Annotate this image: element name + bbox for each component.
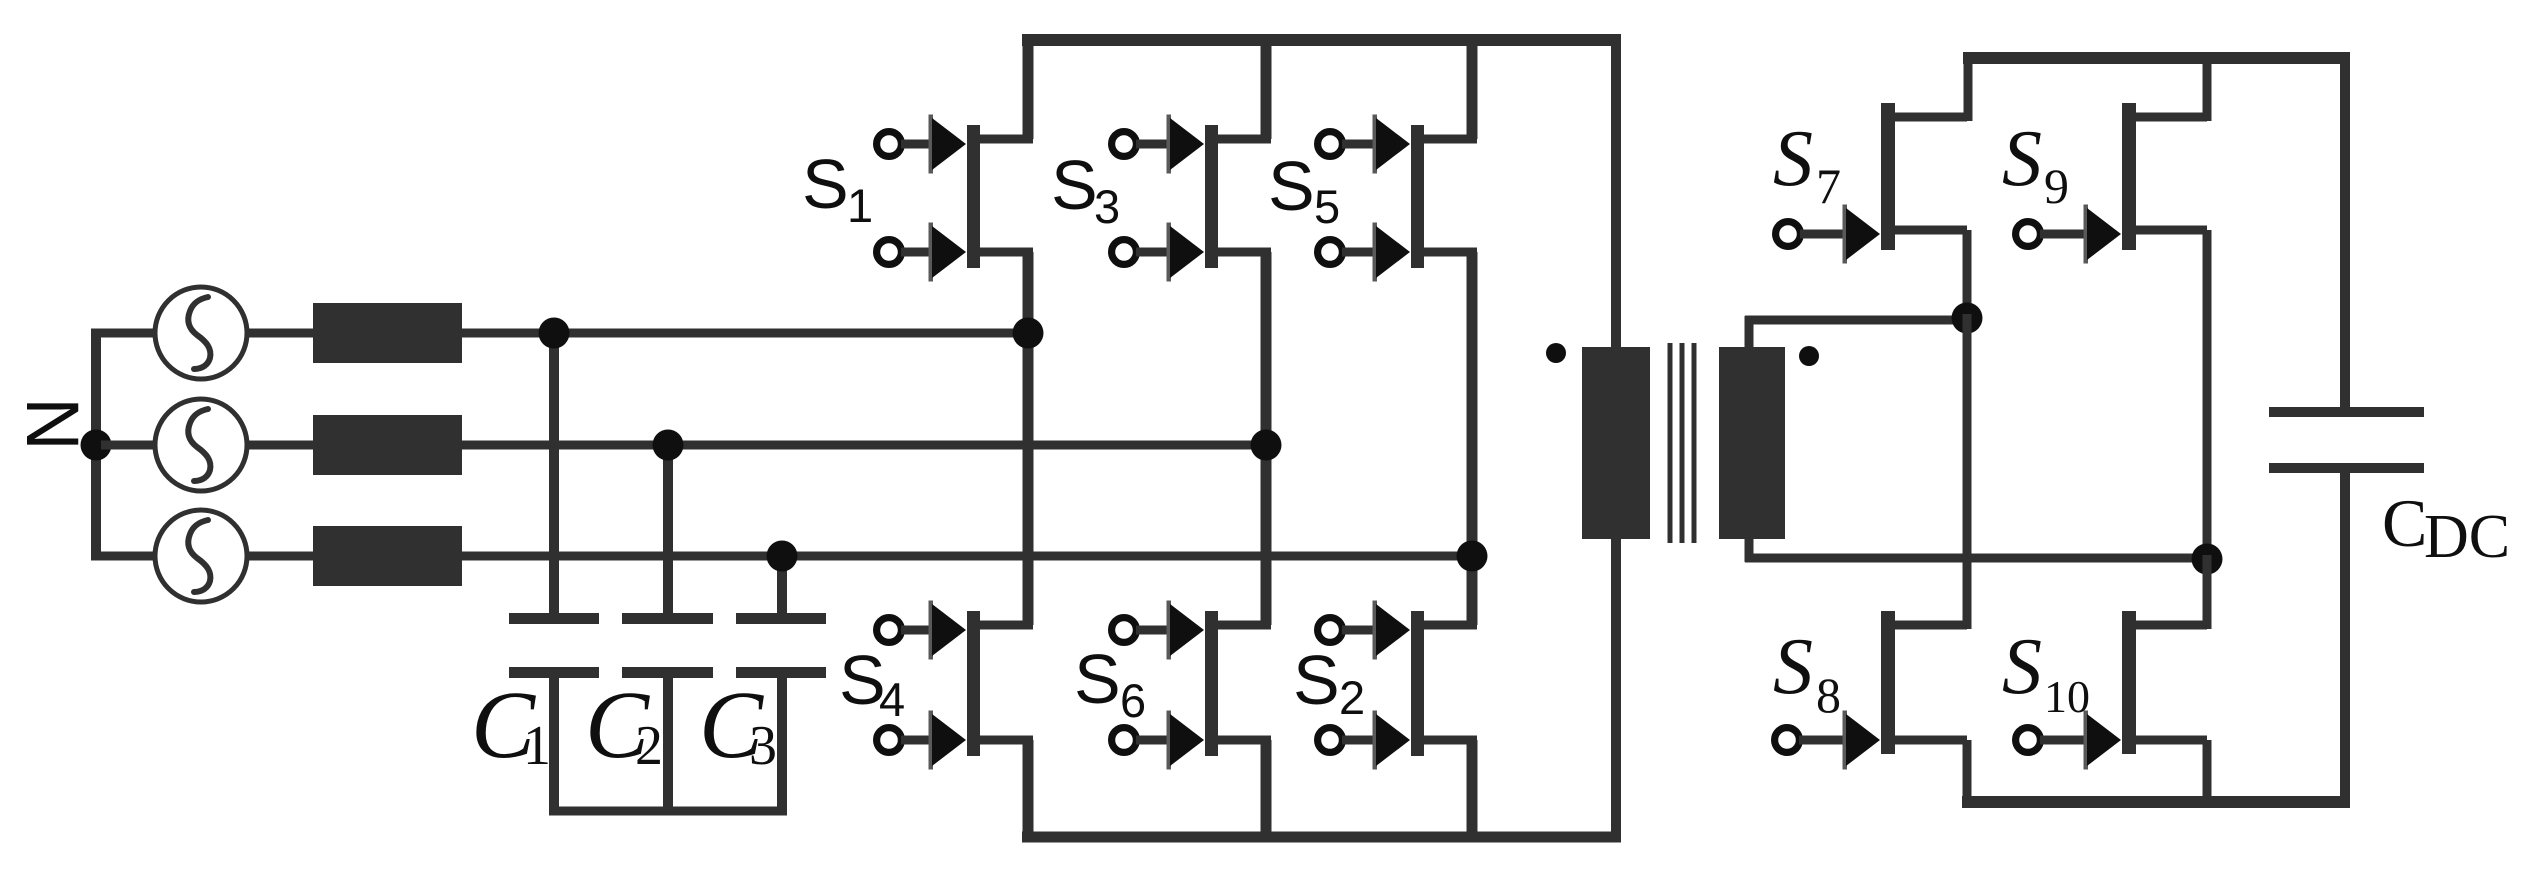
switch S5 diode 1 <box>1373 115 1411 174</box>
switch S6 lower tap <box>1216 736 1271 745</box>
svg-text:3: 3 <box>749 715 777 777</box>
switch S6 label <box>1074 640 1146 727</box>
wire column A lower segment <box>1023 740 1034 840</box>
wire S7 source column <box>1963 230 1972 322</box>
svg-text:S: S <box>2002 115 2042 203</box>
switch S2 channel bar <box>1411 611 1424 756</box>
capacitor C2 bottom plate <box>622 667 713 678</box>
node phase C / C3 junction <box>767 541 798 572</box>
switch S10 gate terminal <box>2016 728 2041 753</box>
node phase A / C1 junction <box>539 318 570 349</box>
node N junction <box>81 430 112 461</box>
wire phase C <box>462 552 1477 561</box>
svg-text:7: 7 <box>1816 158 1841 214</box>
wire S10 drain column <box>2203 555 2212 629</box>
node secondary bottom junction <box>2192 544 2223 575</box>
svg-text:2: 2 <box>1339 671 1365 724</box>
switch S1 gate terminal 2 <box>877 240 902 265</box>
switch S7 gate terminal <box>1776 222 1801 247</box>
svg-text:C: C <box>2382 485 2427 561</box>
capacitor C1 label <box>471 671 551 778</box>
switch S8 channel bar <box>1881 611 1895 754</box>
svg-text:8: 8 <box>1816 667 1841 723</box>
wire capacitor bank bottom bus <box>549 807 787 816</box>
switch S8 label <box>1773 623 1841 723</box>
svg-text:5: 5 <box>1314 180 1340 233</box>
wire secondary top <box>1745 316 1967 347</box>
capacitor C1 top plate <box>509 613 599 624</box>
node phase B / C2 junction <box>653 430 684 461</box>
switch S2 gate terminal 1 <box>1318 618 1343 643</box>
switch S3 lower tap <box>1216 248 1271 257</box>
capacitor CDC top plate <box>2269 407 2424 417</box>
switch S5 channel bar <box>1411 125 1424 268</box>
wire S10 source column <box>2203 740 2212 806</box>
switch S7 channel bar <box>1881 103 1895 250</box>
svg-text:S: S <box>802 145 849 223</box>
switch S6 diode 1 <box>1167 601 1205 660</box>
switch S10 arrow <box>2084 711 2122 770</box>
svg-text:S: S <box>1293 641 1340 719</box>
switch S3 diode 2 <box>1167 223 1205 282</box>
switch S6 diode 2 <box>1167 711 1205 770</box>
switch S1 diode 2 <box>929 223 967 282</box>
switch S1 gate wire 2 <box>901 248 937 257</box>
switch S10 gate wire <box>2040 736 2092 745</box>
switch S8 source tap <box>1893 736 1967 745</box>
switch S9 label <box>2002 115 2069 214</box>
wire C3 top stem <box>777 556 787 616</box>
switch S8 drain tap <box>1893 621 1967 630</box>
transformer core line 2 <box>1680 343 1685 543</box>
wire N to source Vc <box>91 552 156 561</box>
capacitor C3 label <box>699 671 777 778</box>
switch S2 gate terminal 2 <box>1318 728 1343 753</box>
inductor Lc <box>313 526 462 586</box>
capacitor C1 bottom plate <box>509 667 599 678</box>
switch S5 gate terminal 2 <box>1318 240 1343 265</box>
wire column B lower segment <box>1261 740 1272 840</box>
switch S4 gate wire 1 <box>901 626 937 635</box>
switch S1 upper tap <box>978 135 1033 144</box>
wire bridge top bus <box>1963 52 2350 64</box>
ac source Vb circle <box>155 399 247 491</box>
svg-text:10: 10 <box>2044 671 2090 722</box>
inductor Lb <box>313 415 462 475</box>
wire S8 source column <box>1963 740 1972 806</box>
switch S5 upper tap <box>1422 135 1477 144</box>
node phase C column junction <box>1457 541 1488 572</box>
switch S5 gate wire 1 <box>1342 140 1381 149</box>
wire column C middle segment <box>1467 252 1478 625</box>
wire phase B <box>462 441 1271 450</box>
svg-text:DC: DC <box>2424 503 2510 571</box>
switch S5 lower tap <box>1422 248 1477 257</box>
switch S7 source tap <box>1893 226 1967 235</box>
node N label <box>11 397 94 450</box>
svg-text:S: S <box>2002 623 2042 711</box>
ac source Vc sine <box>188 520 210 592</box>
wire S7 drain riser <box>1964 58 1973 121</box>
switch S8 gate wire <box>1799 736 1851 745</box>
wire Va to inductor La <box>247 329 315 338</box>
capacitor C3 bottom plate <box>736 667 826 678</box>
svg-text:1: 1 <box>523 715 551 777</box>
transformer primary polarity dot <box>1546 343 1566 363</box>
svg-text:3: 3 <box>1094 180 1120 233</box>
switch S9 arrow <box>2084 205 2122 264</box>
capacitor C3 top plate <box>736 613 826 624</box>
wire N to source Vb <box>101 441 156 450</box>
switch S6 channel bar <box>1205 611 1218 756</box>
switch S7 gate wire <box>1800 230 1851 239</box>
switch S10 source tap <box>2134 736 2207 745</box>
switch S3 gate wire 2 <box>1136 248 1175 257</box>
switch S4 gate wire 2 <box>901 736 937 745</box>
wire column B middle segment <box>1261 252 1272 625</box>
wire CDC top column <box>2340 58 2350 407</box>
transformer secondary winding <box>1719 347 1785 539</box>
switch S6 gate wire 2 <box>1136 736 1175 745</box>
svg-text:6: 6 <box>1120 674 1146 727</box>
switch S7 label <box>1773 115 1841 214</box>
switch S2 label <box>1293 641 1365 724</box>
node phase A column junction <box>1013 318 1044 349</box>
switch S1 label <box>802 145 873 232</box>
switch S10 label <box>2002 623 2090 722</box>
wire S9 drain riser <box>2203 58 2212 121</box>
wire N to source Va <box>91 329 156 338</box>
switch S1 diode 1 <box>929 115 967 174</box>
wire phase A <box>462 329 1033 338</box>
capacitor CDC bottom plate <box>2269 463 2424 473</box>
switch S4 diode 2 <box>929 711 967 770</box>
transformer core line 3 <box>1692 343 1697 543</box>
switch S2 diode 1 <box>1373 601 1411 660</box>
svg-text:2: 2 <box>635 715 663 777</box>
wire transformer primary top <box>1611 40 1621 347</box>
switch S4 label <box>839 641 905 726</box>
wire column C upper segment <box>1467 40 1478 139</box>
wire neutral bus vertical <box>91 333 101 556</box>
wire C3 bottom stem <box>777 678 787 811</box>
ac source Va sine <box>188 297 210 369</box>
switch S4 diode 1 <box>929 601 967 660</box>
switch S7 arrow <box>1843 205 1881 264</box>
transformer primary winding <box>1582 347 1650 539</box>
switch S9 source tap <box>2134 226 2207 235</box>
wire column B upper segment <box>1261 40 1272 139</box>
switch S4 lower tap <box>978 736 1033 745</box>
switch S2 diode 2 <box>1373 711 1411 770</box>
switch S5 label <box>1268 147 1340 233</box>
wire secondary bottom <box>1745 539 2211 562</box>
switch S7 drain tap <box>1893 113 1967 122</box>
wire Vb to inductor Lb <box>247 441 315 450</box>
switch S2 gate wire 1 <box>1342 626 1381 635</box>
svg-text:S: S <box>1773 623 1813 711</box>
switch S1 channel bar <box>967 125 980 268</box>
switch S10 drain tap <box>2134 621 2207 630</box>
switch S9 drain tap <box>2134 113 2207 122</box>
transformer core line 1 <box>1668 343 1673 543</box>
capacitor C2 top plate <box>622 613 713 624</box>
switch S5 diode 2 <box>1373 223 1411 282</box>
wire C1 bottom stem <box>549 678 559 811</box>
switch S2 lower tap <box>1422 736 1477 745</box>
ac source Va circle <box>155 287 247 379</box>
switch S6 upper tap <box>1216 621 1271 630</box>
wire S8 drain column <box>1963 314 1972 629</box>
switch S4 gate terminal 2 <box>877 728 902 753</box>
switch S5 gate terminal 1 <box>1318 132 1343 157</box>
switch S1 gate wire 1 <box>901 140 937 149</box>
svg-text:S: S <box>1074 640 1121 718</box>
switch S1 lower tap <box>978 248 1033 257</box>
switch S6 gate terminal 2 <box>1112 728 1137 753</box>
wire column A upper segment <box>1023 40 1034 139</box>
switch S3 channel bar <box>1205 125 1218 268</box>
wire matrix bottom bus <box>1022 832 1621 843</box>
switch S3 gate wire 1 <box>1136 140 1175 149</box>
switch S9 gate terminal <box>2016 222 2041 247</box>
svg-text:S: S <box>1268 147 1315 225</box>
switch S9 gate wire <box>2040 230 2092 239</box>
wire transformer primary bottom <box>1611 539 1621 840</box>
wire CDC bottom column <box>2340 473 2350 802</box>
svg-text:9: 9 <box>2044 158 2069 214</box>
transformer secondary polarity dot <box>1799 346 1819 366</box>
capacitor CDC label <box>2382 485 2510 571</box>
wire C1 top stem <box>549 333 559 616</box>
switch S8 arrow <box>1843 711 1881 770</box>
switch S3 upper tap <box>1216 135 1271 144</box>
switch S4 upper tap <box>978 621 1033 630</box>
svg-text:S: S <box>1773 115 1813 203</box>
switch S9 channel bar <box>2122 103 2136 250</box>
wire column C lower segment <box>1467 740 1478 840</box>
ac source Vc circle <box>155 510 247 602</box>
switch S2 gate wire 2 <box>1342 736 1381 745</box>
switch S1 gate terminal 1 <box>877 132 902 157</box>
svg-text:4: 4 <box>879 673 905 726</box>
switch S4 gate terminal 1 <box>877 618 902 643</box>
wire Vc to inductor Lc <box>247 552 315 561</box>
inductor La <box>313 303 462 363</box>
wire C2 bottom stem <box>663 678 673 811</box>
node secondary top junction <box>1952 303 1983 334</box>
svg-text:1: 1 <box>847 179 873 232</box>
node phase B column junction <box>1251 430 1282 461</box>
svg-text:S: S <box>1051 146 1098 224</box>
wire S9 source column <box>2203 230 2212 563</box>
switch S3 gate terminal 1 <box>1112 132 1137 157</box>
switch S3 gate terminal 2 <box>1112 240 1137 265</box>
ac source Vb sine <box>188 409 210 481</box>
capacitor C2 label <box>585 671 663 778</box>
switch S3 diode 1 <box>1167 115 1205 174</box>
switch S4 channel bar <box>967 611 980 756</box>
switch S6 gate terminal 1 <box>1112 618 1137 643</box>
switch S6 gate wire 1 <box>1136 626 1175 635</box>
wire matrix top bus <box>1022 34 1621 46</box>
wire C2 top stem <box>663 445 673 616</box>
switch S2 upper tap <box>1422 621 1477 630</box>
switch S10 channel bar <box>2122 611 2136 754</box>
switch S3 label <box>1051 146 1120 233</box>
wire bridge bottom bus <box>1962 796 2350 808</box>
wire column A middle segment <box>1023 252 1034 625</box>
switch S8 gate terminal <box>1775 728 1800 753</box>
switch S5 gate wire 2 <box>1342 248 1381 257</box>
